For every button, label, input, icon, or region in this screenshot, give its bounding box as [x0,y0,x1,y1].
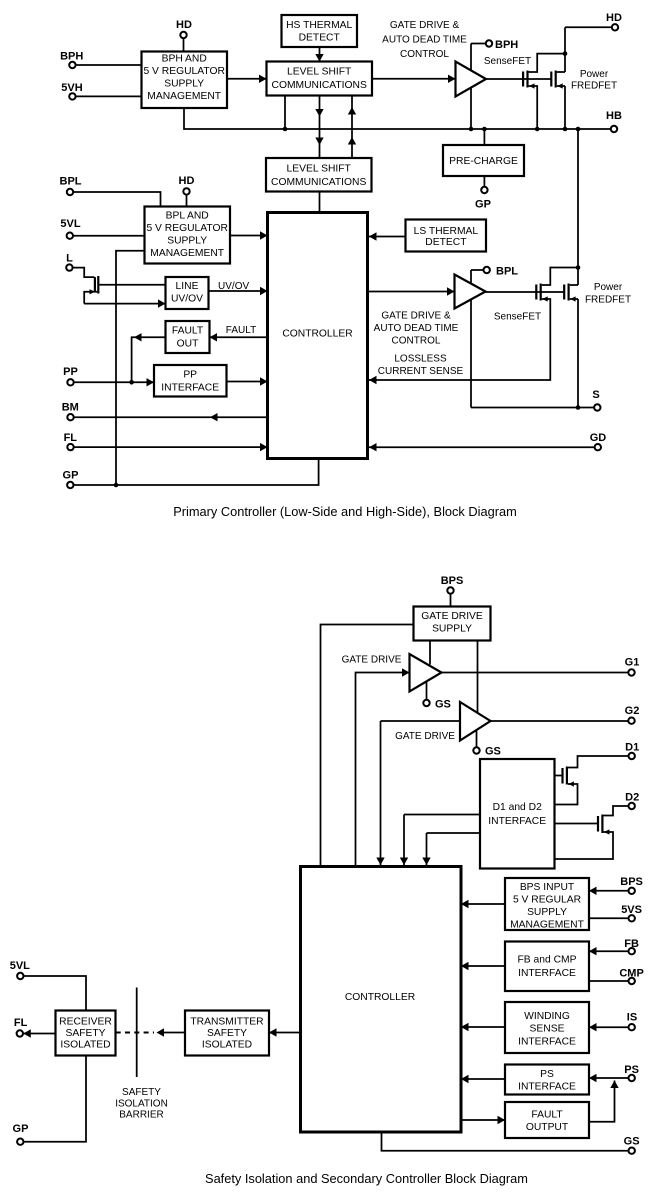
svg-text:GS: GS [624,1136,640,1148]
svg-text:GS: GS [485,746,501,758]
svg-text:GATE DRIVE: GATE DRIVE [395,731,455,742]
svg-text:BPL: BPL [60,175,82,187]
svg-text:G2: G2 [625,705,640,717]
svg-text:ISOLATED: ISOLATED [60,1040,110,1051]
svg-text:OUTPUT: OUTPUT [526,1122,569,1133]
svg-text:HD: HD [606,12,622,24]
svg-text:LOSSLESS: LOSSLESS [394,354,447,365]
svg-text:G1: G1 [625,657,640,669]
svg-text:GD: GD [590,432,607,444]
svg-text:BPH AND: BPH AND [162,54,207,65]
svg-text:D1: D1 [625,742,639,754]
svg-text:OUT: OUT [177,339,199,350]
svg-text:LEVEL SHIFT: LEVEL SHIFT [287,164,352,175]
svg-text:ISOLATED: ISOLATED [202,1040,252,1051]
svg-text:Power: Power [594,282,623,293]
svg-text:PRE-CHARGE: PRE-CHARGE [449,156,518,167]
svg-text:RECEIVER: RECEIVER [59,1017,112,1028]
svg-text:SAFETY: SAFETY [65,1028,105,1039]
svg-text:UV/OV: UV/OV [171,294,203,305]
svg-text:FL: FL [14,1017,28,1029]
svg-text:BPL: BPL [496,266,518,278]
svg-text:FAULT: FAULT [226,325,256,336]
svg-text:5VL: 5VL [60,218,80,230]
svg-text:WINDING: WINDING [524,1011,570,1022]
svg-text:INTERFACE: INTERFACE [161,383,219,394]
svg-text:INTERFACE: INTERFACE [518,968,576,979]
svg-text:MANAGEMENT: MANAGEMENT [510,920,585,931]
svg-text:AUTO DEAD TIME: AUTO DEAD TIME [374,323,459,334]
svg-text:ISOLATION: ISOLATION [115,1099,168,1110]
svg-text:FB and CMP: FB and CMP [518,955,577,966]
svg-text:HS THERMAL: HS THERMAL [286,20,352,31]
svg-text:HD: HD [179,175,195,187]
svg-text:INTERFACE: INTERFACE [488,816,546,827]
svg-text:CONTROL: CONTROL [392,336,441,347]
svg-text:HD: HD [176,19,192,31]
svg-text:UV/OV: UV/OV [218,281,249,292]
svg-text:MANAGEMENT: MANAGEMENT [150,248,225,259]
svg-text:5 V REGULAR: 5 V REGULAR [513,895,581,906]
svg-text:SUPPLY: SUPPLY [432,624,472,635]
svg-text:PP: PP [183,370,197,381]
svg-text:GP: GP [475,199,491,211]
svg-text:SUPPLY: SUPPLY [527,907,567,918]
svg-text:CONTROLLER: CONTROLLER [282,329,352,340]
svg-text:SUPPLY: SUPPLY [167,236,207,247]
svg-text:BPS: BPS [620,876,643,888]
svg-text:LEVEL SHIFT: LEVEL SHIFT [287,67,352,78]
svg-text:FAULT: FAULT [531,1110,563,1121]
svg-text:FREDFET: FREDFET [571,81,617,92]
svg-text:FB: FB [624,938,639,950]
svg-text:COMMUNICATIONS: COMMUNICATIONS [271,177,366,188]
svg-text:S: S [592,389,599,401]
svg-text:5VS: 5VS [621,904,642,916]
svg-text:BM: BM [62,402,79,414]
svg-text:SENSE: SENSE [530,1024,565,1035]
svg-text:BPS INPUT: BPS INPUT [520,882,575,893]
svg-text:AUTO DEAD TIME: AUTO DEAD TIME [382,35,467,46]
svg-text:5VH: 5VH [61,82,82,94]
svg-text:DETECT: DETECT [425,237,467,248]
svg-text:COMMUNICATIONS: COMMUNICATIONS [272,80,367,91]
svg-text:PS: PS [624,1064,639,1076]
svg-text:D1 and D2: D1 and D2 [493,802,543,813]
svg-text:CONTROL: CONTROL [400,49,449,60]
svg-text:FL: FL [64,432,78,444]
svg-text:5VL: 5VL [10,960,30,972]
svg-text:LINE: LINE [176,281,199,292]
svg-text:FAULT: FAULT [172,326,204,337]
svg-text:5 V REGULATOR: 5 V REGULATOR [143,66,224,77]
svg-text:GP: GP [13,1123,29,1135]
svg-text:5 V REGULATOR: 5 V REGULATOR [146,223,227,234]
svg-text:INTERFACE: INTERFACE [518,1037,576,1048]
svg-text:BPL AND: BPL AND [166,211,209,222]
svg-text:GATE DRIVE &: GATE DRIVE & [381,311,451,322]
svg-text:CMP: CMP [619,967,643,979]
svg-text:CURRENT SENSE: CURRENT SENSE [378,366,464,377]
svg-text:CONTROLLER: CONTROLLER [345,992,415,1003]
svg-text:SAFETY: SAFETY [207,1028,247,1039]
svg-text:HB: HB [606,110,622,122]
svg-text:BARRIER: BARRIER [119,1110,163,1121]
svg-text:MANAGEMENT: MANAGEMENT [147,91,222,102]
svg-text:LS THERMAL: LS THERMAL [414,226,479,237]
svg-text:GP: GP [63,469,79,481]
svg-text:SenseFET: SenseFET [494,312,541,323]
svg-text:D2: D2 [625,792,639,804]
svg-text:BPH: BPH [495,39,518,51]
svg-text:GATE DRIVE &: GATE DRIVE & [390,20,460,31]
svg-text:Primary Controller (Low-Side a: Primary Controller (Low-Side and High-Si… [173,504,517,519]
svg-text:GATE DRIVE: GATE DRIVE [342,655,402,666]
svg-text:PS: PS [540,1069,554,1080]
svg-text:FREDFET: FREDFET [585,295,631,306]
svg-text:SenseFET: SenseFET [484,56,531,67]
svg-text:IS: IS [627,1011,637,1023]
svg-text:TRANSMITTER: TRANSMITTER [190,1017,263,1028]
svg-text:INTERFACE: INTERFACE [518,1082,576,1093]
svg-text:BPS: BPS [441,575,464,587]
svg-text:Safety Isolation and Secondary: Safety Isolation and Secondary Controlle… [205,1171,528,1186]
svg-text:Power: Power [580,69,609,80]
svg-text:DETECT: DETECT [299,33,341,44]
svg-text:GS: GS [435,699,451,711]
svg-text:SUPPLY: SUPPLY [164,79,204,90]
svg-text:GATE DRIVE: GATE DRIVE [421,611,483,622]
svg-text:BPH: BPH [60,50,83,62]
svg-text:L: L [66,253,73,265]
svg-text:SAFETY: SAFETY [122,1087,161,1098]
svg-text:PP: PP [63,366,78,378]
